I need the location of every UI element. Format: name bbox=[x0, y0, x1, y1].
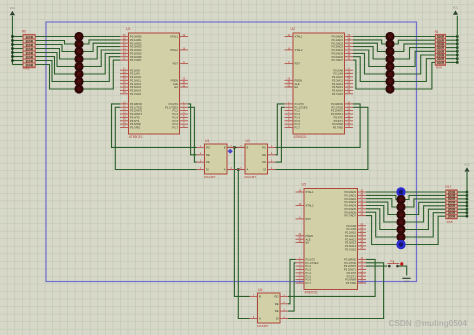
LED D16 bbox=[385, 84, 394, 93]
power VCC rail (mid right) bbox=[466, 172, 468, 216]
svg-text:P0.2/AD2: P0.2/AD2 bbox=[331, 41, 343, 45]
svg-text:VCC: VCC bbox=[10, 6, 16, 10]
svg-text:P0.7/AD7: P0.7/AD7 bbox=[344, 214, 356, 218]
wire U6 DE to U5 P1.1 bbox=[288, 263, 296, 311]
wire LED D10 to R1.2 bbox=[395, 40, 436, 44]
junction on mid-right VCC rail bbox=[466, 201, 468, 203]
wire U2 P0.6 to LED D15 bbox=[353, 57, 385, 82]
LED D5 bbox=[74, 62, 83, 71]
svg-text:P0.7/AD7: P0.7/AD7 bbox=[331, 58, 343, 62]
svg-text:XTAL1: XTAL1 bbox=[306, 190, 315, 194]
svg-text:A: A bbox=[259, 317, 261, 321]
svg-text:XTAL2: XTAL2 bbox=[306, 204, 315, 208]
MCU U5 bbox=[304, 189, 358, 290]
svg-text:U3: U3 bbox=[246, 139, 250, 143]
LED D18 bbox=[396, 195, 405, 204]
wire R17 row 5 to VCC rail bbox=[457, 205, 467, 207]
LED D9 bbox=[385, 32, 394, 41]
svg-text:AT89C51: AT89C51 bbox=[129, 135, 142, 139]
svg-text:P2.0/A8: P2.0/A8 bbox=[346, 224, 356, 228]
svg-text:P0.6/AD6: P0.6/AD6 bbox=[331, 55, 343, 59]
wire LED D23 to R17.7 bbox=[406, 213, 446, 237]
wire U2 P0.0 to LED D9 bbox=[353, 36, 385, 38]
wire LED D19 to R17.3 bbox=[406, 199, 446, 207]
wire LED D11 to R1.3 bbox=[395, 44, 436, 52]
wire R9.1 to LED D1 bbox=[35, 36, 74, 38]
LED D14 bbox=[385, 69, 394, 78]
svg-text:P2.2/A10: P2.2/A10 bbox=[332, 75, 344, 79]
wire U5 P0.3 to LED D20 bbox=[366, 202, 396, 214]
svg-text:P2.3/A11: P2.3/A11 bbox=[345, 234, 356, 238]
svg-text:P0.3/AD3: P0.3/AD3 bbox=[130, 45, 142, 49]
svg-text:R9: R9 bbox=[22, 29, 26, 33]
svg-text:MAX487: MAX487 bbox=[257, 324, 269, 328]
svg-text:P1.2: P1.2 bbox=[172, 109, 178, 113]
junction on left VCC rail bbox=[11, 47, 13, 49]
junction on top-right VCC rail bbox=[456, 58, 458, 60]
svg-text:RX8: RX8 bbox=[447, 220, 453, 224]
wire U2 P0.3 to LED D12 bbox=[353, 47, 385, 59]
svg-text:MAX487: MAX487 bbox=[245, 175, 257, 179]
svg-text:P2.7/A15: P2.7/A15 bbox=[130, 92, 142, 96]
svg-text:B: B bbox=[259, 295, 261, 299]
svg-text:P3.3/INT1: P3.3/INT1 bbox=[130, 112, 143, 116]
LED D23 bbox=[396, 232, 405, 241]
wire U2 P0.2 to LED D11 bbox=[353, 43, 385, 51]
wire R1 row 8 to VCC rail bbox=[446, 61, 458, 63]
svg-text:300R: 300R bbox=[448, 215, 456, 219]
svg-text:RX8: RX8 bbox=[436, 65, 442, 69]
svg-text:RX8: RX8 bbox=[24, 66, 30, 70]
svg-text:P3.6/WR: P3.6/WR bbox=[332, 122, 343, 126]
wire LED D12 to R1.4 bbox=[395, 48, 436, 59]
wire U1 P3.0/RXD to U4 RO bbox=[112, 104, 197, 147]
wire LED D16 to R1.8 bbox=[395, 62, 436, 89]
svg-text:P0.7/AD7: P0.7/AD7 bbox=[130, 58, 142, 62]
svg-text:P0.6/AD6: P0.6/AD6 bbox=[130, 55, 142, 59]
junction on left VCC rail bbox=[11, 55, 13, 57]
wire R9 row 3 to VCC rail bbox=[12, 44, 23, 46]
wire LED D2 to U1 P0.1 bbox=[84, 40, 121, 44]
junction on mid-right VCC rail bbox=[466, 194, 468, 196]
wire R9.6 to LED D6 bbox=[35, 57, 74, 75]
svg-text:P1.2: P1.2 bbox=[295, 109, 301, 113]
svg-text:P1.6: P1.6 bbox=[306, 278, 312, 282]
wire U5 P0.1 to LED D18 bbox=[366, 195, 396, 199]
MCU U2 bbox=[293, 33, 345, 134]
LED D20 bbox=[396, 210, 405, 219]
svg-text:P0.0/AD0: P0.0/AD0 bbox=[130, 35, 142, 39]
svg-text:P2.4/A12: P2.4/A12 bbox=[130, 82, 142, 86]
svg-text:B: B bbox=[224, 146, 226, 150]
svg-text:RST: RST bbox=[306, 217, 312, 221]
wire R9.4 to LED D4 bbox=[35, 49, 74, 60]
svg-text:P3.0/RXD: P3.0/RXD bbox=[130, 102, 142, 106]
wire LED D6 to U1 P0.5 bbox=[84, 53, 121, 74]
svg-text:P3.2/INT0: P3.2/INT0 bbox=[344, 264, 357, 268]
wire R9 row 5 to VCC rail bbox=[12, 52, 23, 54]
svg-text:U6: U6 bbox=[258, 288, 262, 292]
wire U5 P0.7 to LED D24 bbox=[366, 216, 396, 245]
svg-text:P3.5/T1: P3.5/T1 bbox=[334, 119, 344, 123]
svg-text:EA: EA bbox=[306, 241, 310, 245]
svg-text:P2.5/A13: P2.5/A13 bbox=[345, 241, 357, 245]
svg-text:RO: RO bbox=[206, 146, 210, 150]
svg-text:P3.0/RXD: P3.0/RXD bbox=[344, 258, 356, 262]
power VCC rail (top right) bbox=[456, 16, 458, 63]
svg-text:P0.6/AD6: P0.6/AD6 bbox=[344, 210, 356, 214]
wire U2 P0.1 to LED D10 bbox=[353, 40, 385, 44]
wire net A bus U4-U3 bbox=[227, 169, 245, 171]
wire U5 P3.2/INT0 to button K1 bbox=[366, 265, 387, 267]
svg-text:DE: DE bbox=[206, 160, 210, 164]
LED D21 bbox=[396, 217, 405, 226]
wire net B bus U4-U3 bbox=[227, 146, 245, 148]
svg-text:P1.6: P1.6 bbox=[172, 122, 178, 126]
junction on top-right VCC rail bbox=[456, 54, 458, 56]
wire U5 P0.2 to LED D19 bbox=[366, 199, 396, 207]
svg-text:P2.6/A14: P2.6/A14 bbox=[332, 89, 344, 93]
svg-text:P3.4/T0: P3.4/T0 bbox=[347, 271, 357, 275]
svg-text:P2.2/A10: P2.2/A10 bbox=[130, 75, 142, 79]
svg-text:R1: R1 bbox=[435, 30, 439, 34]
svg-text:DI: DI bbox=[206, 168, 209, 172]
svg-text:P0.3/AD3: P0.3/AD3 bbox=[331, 45, 343, 49]
svg-text:P3.7/RD: P3.7/RD bbox=[130, 126, 140, 130]
wire R9.5 to LED D5 bbox=[35, 53, 74, 67]
ground bbox=[402, 277, 410, 279]
svg-text:P3.7/RD: P3.7/RD bbox=[333, 126, 343, 130]
svg-text:P3.6/WR: P3.6/WR bbox=[345, 278, 356, 282]
LED D11 bbox=[385, 47, 394, 56]
junction on left VCC rail bbox=[11, 59, 13, 61]
svg-text:P1.3: P1.3 bbox=[295, 112, 301, 116]
wire R17 row 8 to VCC rail bbox=[457, 215, 467, 217]
wire LED D4 to U1 P0.3 bbox=[84, 47, 121, 59]
wire R17 row 7 to VCC rail bbox=[457, 212, 467, 214]
svg-text:RST: RST bbox=[295, 62, 301, 66]
power VCC rail (left) bbox=[11, 16, 13, 65]
wire R9.2 to LED D2 bbox=[35, 41, 74, 45]
svg-text:P1.6: P1.6 bbox=[295, 122, 301, 126]
svg-text:B: B bbox=[247, 146, 249, 150]
wire button K1 to ground bbox=[399, 266, 407, 275]
LED D2 bbox=[74, 39, 83, 48]
wire LED D22 to R17.6 bbox=[406, 209, 446, 229]
wire LED D18 to R17.2 bbox=[406, 195, 446, 199]
svg-text:P1.0/T2: P1.0/T2 bbox=[306, 258, 316, 262]
wire LED D8 to U1 P0.7 bbox=[84, 60, 121, 89]
svg-text:XTAL1: XTAL1 bbox=[295, 35, 304, 39]
wire U1 P3.1/TXD to U4 DI bbox=[115, 107, 196, 169]
svg-text:PSEN: PSEN bbox=[171, 78, 178, 82]
wire R1 row 6 to VCC rail bbox=[446, 54, 458, 56]
junction on mid-right VCC rail bbox=[466, 215, 468, 217]
svg-text:U5: U5 bbox=[302, 183, 307, 187]
wire R9.7 to LED D7 bbox=[35, 61, 74, 82]
svg-text:A: A bbox=[224, 168, 226, 172]
junction on top-right VCC rail bbox=[456, 61, 458, 63]
junction node A bbox=[237, 168, 239, 170]
svg-text:RE: RE bbox=[206, 153, 210, 157]
junction on mid-right VCC rail bbox=[466, 212, 468, 214]
svg-text:P3.6/WR: P3.6/WR bbox=[130, 122, 141, 126]
wire LED D7 to U1 P0.6 bbox=[84, 57, 121, 82]
wire U6 DI to U5 P3.1/TXD bbox=[288, 263, 384, 319]
wire net A drop to U6 bbox=[238, 170, 249, 319]
svg-text:P1.7: P1.7 bbox=[295, 126, 301, 130]
wire R9 row 8 to VCC rail bbox=[12, 64, 23, 66]
junction on top-right VCC rail bbox=[456, 50, 458, 52]
LED D6 bbox=[74, 69, 83, 78]
svg-text:P1.5: P1.5 bbox=[295, 119, 301, 123]
svg-text:EA: EA bbox=[295, 85, 299, 89]
svg-text:P3.3/INT1: P3.3/INT1 bbox=[344, 268, 357, 272]
wire U2 P0.7 to LED D16 bbox=[353, 60, 385, 89]
svg-text:K1: K1 bbox=[391, 259, 395, 263]
svg-text:gnd: gnd bbox=[404, 279, 409, 283]
svg-text:DE: DE bbox=[262, 160, 266, 164]
wire R9 row 2 to VCC rail bbox=[12, 40, 23, 42]
svg-text:RO: RO bbox=[262, 146, 266, 150]
wire U2 P1.0 to U3 RE bbox=[276, 104, 285, 155]
svg-text:P1.3: P1.3 bbox=[306, 268, 312, 272]
svg-text:XTAL1: XTAL1 bbox=[170, 35, 179, 39]
wire LED D24 to R17.8 bbox=[406, 216, 446, 244]
button indicator bbox=[400, 262, 403, 265]
resistor pack R9 bbox=[23, 34, 35, 68]
wire R1 row 4 to VCC rail bbox=[446, 47, 458, 49]
svg-text:A: A bbox=[247, 168, 249, 172]
wire R17 row 3 to VCC rail bbox=[457, 198, 467, 200]
wire LED D20 to R17.4 bbox=[406, 202, 446, 214]
junction on mid-right VCC rail bbox=[466, 205, 468, 207]
svg-text:P3.2/INT0: P3.2/INT0 bbox=[130, 109, 143, 113]
transceiver U6 bbox=[258, 293, 281, 323]
wire R9.8 to LED D8 bbox=[35, 65, 74, 90]
svg-text:P2.3/A11: P2.3/A11 bbox=[332, 78, 343, 82]
wire LED D17 to R17.1 bbox=[406, 191, 446, 193]
wire U5 P0.0 to LED D17 bbox=[366, 191, 396, 193]
wire LED D3 to U1 P0.2 bbox=[84, 43, 121, 51]
junction node B bbox=[233, 146, 235, 148]
svg-text:U1: U1 bbox=[126, 27, 131, 31]
wire U6 RE to U5 P1.0 bbox=[288, 259, 296, 303]
wire U5 P0.4 to LED D21 bbox=[366, 206, 396, 223]
LED D19 bbox=[396, 202, 405, 211]
svg-text:PSEN: PSEN bbox=[295, 78, 302, 82]
bus marker diamond bbox=[228, 149, 233, 154]
svg-text:XTAL2: XTAL2 bbox=[295, 48, 304, 52]
svg-text:P1.0/T2: P1.0/T2 bbox=[295, 102, 305, 106]
svg-text:DE: DE bbox=[275, 309, 279, 313]
svg-text:P1.0/T2: P1.0/T2 bbox=[169, 102, 179, 106]
wire U1 P1.1 to U4 DE bbox=[188, 107, 197, 162]
svg-text:P0.5/AD5: P0.5/AD5 bbox=[344, 207, 356, 211]
svg-text:CSDN @muling0504: CSDN @muling0504 bbox=[388, 319, 467, 328]
svg-text:RE: RE bbox=[275, 302, 279, 306]
wire U2 P3.1/TXD to U3 DI bbox=[276, 107, 368, 169]
LED D10 bbox=[385, 39, 394, 48]
svg-text:P0.4/AD4: P0.4/AD4 bbox=[331, 48, 343, 52]
svg-text:VCC: VCC bbox=[453, 6, 459, 10]
wire R1 row 5 to VCC rail bbox=[446, 50, 458, 52]
wire R9 row 1 to VCC rail bbox=[12, 36, 23, 38]
wire R17 row 4 to VCC rail bbox=[457, 201, 467, 203]
wire LED D1 to U1 P0.0 bbox=[84, 36, 121, 38]
svg-text:RO: RO bbox=[274, 295, 278, 299]
transceiver U3 bbox=[245, 144, 268, 174]
svg-text:VCC: VCC bbox=[464, 162, 470, 166]
svg-text:P0.2/AD2: P0.2/AD2 bbox=[344, 197, 356, 201]
svg-text:P2.2/A10: P2.2/A10 bbox=[345, 231, 357, 235]
svg-text:RST: RST bbox=[173, 62, 179, 66]
svg-text:P2.7/A15: P2.7/A15 bbox=[332, 92, 344, 96]
svg-text:EA: EA bbox=[174, 85, 178, 89]
wire R1 row 1 to VCC rail bbox=[446, 36, 458, 38]
svg-text:DI: DI bbox=[263, 168, 266, 172]
svg-text:P1.7: P1.7 bbox=[306, 281, 312, 285]
svg-text:P3.7/RD: P3.7/RD bbox=[346, 281, 356, 285]
wire R9.3 to LED D3 bbox=[35, 45, 74, 52]
wire LED D21 to R17.5 bbox=[406, 206, 446, 222]
junction on top-right VCC rail bbox=[456, 35, 458, 37]
svg-text:DI: DI bbox=[276, 317, 279, 321]
junction on mid-right VCC rail bbox=[466, 208, 468, 210]
wire U2 P3.0/RXD to U3 RO bbox=[276, 104, 361, 147]
wire U6 RO to U5 P3.0/RXD bbox=[288, 259, 375, 296]
junction on top-right VCC rail bbox=[456, 39, 458, 41]
svg-text:P2.6/A14: P2.6/A14 bbox=[130, 89, 142, 93]
junction on mid-right VCC rail bbox=[466, 191, 468, 193]
resistor pack R1 bbox=[435, 34, 445, 65]
wire U2 P1.1 to U3 DE bbox=[276, 107, 285, 162]
svg-text:R17: R17 bbox=[445, 185, 451, 189]
svg-text:P2.0/A8: P2.0/A8 bbox=[333, 68, 343, 72]
svg-text:RE: RE bbox=[262, 153, 266, 157]
junction on mid-right VCC rail bbox=[466, 198, 468, 200]
wire R9 row 4 to VCC rail bbox=[12, 48, 23, 50]
junction on left VCC rail bbox=[11, 35, 13, 37]
svg-text:P2.7/A15: P2.7/A15 bbox=[345, 247, 357, 251]
wire R9 row 6 to VCC rail bbox=[12, 56, 23, 58]
wire R1 row 3 to VCC rail bbox=[446, 43, 458, 45]
LED D7 bbox=[74, 77, 83, 86]
svg-text:P1.5: P1.5 bbox=[172, 119, 178, 123]
resistor pack R17 bbox=[446, 190, 457, 219]
svg-text:P0.4/AD4: P0.4/AD4 bbox=[130, 48, 142, 52]
LED D4 bbox=[74, 54, 83, 63]
wire R1 row 2 to VCC rail bbox=[446, 39, 458, 41]
wire U5 P0.6 to LED D23 bbox=[366, 212, 396, 237]
svg-text:P1.3: P1.3 bbox=[172, 112, 178, 116]
transceiver U4 bbox=[205, 144, 228, 174]
wire U2 P0.4 to LED D13 bbox=[353, 50, 385, 67]
wire LED D13 to R1.5 bbox=[395, 51, 436, 66]
svg-text:P3.3/INT1: P3.3/INT1 bbox=[331, 112, 344, 116]
wire R17 row 2 to VCC rail bbox=[457, 194, 467, 196]
svg-text:P0.0/AD0: P0.0/AD0 bbox=[331, 35, 343, 39]
LED D24 bbox=[396, 240, 405, 249]
wire U2 P0.5 to LED D14 bbox=[353, 53, 385, 74]
svg-text:PSEN: PSEN bbox=[306, 234, 313, 238]
wire R1 row 7 to VCC rail bbox=[446, 58, 458, 60]
junction on left VCC rail bbox=[11, 43, 13, 45]
junction on left VCC rail bbox=[11, 51, 13, 53]
wire R17 row 6 to VCC rail bbox=[457, 208, 467, 210]
svg-text:P2.3/A11: P2.3/A11 bbox=[130, 78, 141, 82]
svg-text:AT89C51: AT89C51 bbox=[305, 291, 318, 295]
LED D12 bbox=[385, 54, 394, 63]
svg-text:P2.6/A14: P2.6/A14 bbox=[345, 244, 357, 248]
svg-text:P0.3/AD3: P0.3/AD3 bbox=[344, 200, 356, 204]
junction on top-right VCC rail bbox=[456, 46, 458, 48]
wire LED D14 to R1.6 bbox=[395, 55, 436, 74]
LED D13 bbox=[385, 62, 394, 71]
wire net B drop to U6 bbox=[234, 147, 249, 296]
junction on top-right VCC rail bbox=[456, 43, 458, 45]
junction on left VCC rail bbox=[11, 39, 13, 41]
LED D1 bbox=[74, 32, 83, 41]
LED D3 bbox=[74, 47, 83, 56]
wire LED D9 to R1.1 bbox=[395, 36, 436, 38]
svg-text:P1.2: P1.2 bbox=[306, 264, 312, 268]
svg-text:P2.0/A8: P2.0/A8 bbox=[130, 68, 140, 72]
LED D17 bbox=[396, 187, 405, 196]
wire U1 P1.0 to U4 RE bbox=[188, 104, 197, 155]
svg-text:U4: U4 bbox=[205, 139, 209, 143]
sheet border bbox=[46, 22, 417, 282]
LED D15 bbox=[385, 77, 394, 86]
svg-text:XTAL2: XTAL2 bbox=[170, 48, 179, 52]
svg-text:U2: U2 bbox=[291, 27, 296, 31]
svg-text:P0.0/AD0: P0.0/AD0 bbox=[344, 190, 356, 194]
svg-text:P2.4/A12: P2.4/A12 bbox=[332, 82, 344, 86]
svg-text:P1.4: P1.4 bbox=[306, 271, 312, 275]
push button K1 bbox=[388, 265, 391, 268]
wire LED D15 to R1.7 bbox=[395, 59, 436, 82]
svg-text:P3.2/INT0: P3.2/INT0 bbox=[331, 109, 344, 113]
LED D8 bbox=[74, 84, 83, 93]
svg-text:P3.5/T1: P3.5/T1 bbox=[130, 119, 140, 123]
LED D22 bbox=[396, 225, 405, 234]
svg-text:MAX487: MAX487 bbox=[204, 175, 216, 179]
wire U5 P0.5 to LED D22 bbox=[366, 209, 396, 230]
wire R9 row 7 to VCC rail bbox=[12, 60, 23, 62]
svg-text:AT89C51: AT89C51 bbox=[294, 135, 307, 139]
svg-text:P3.0/RXD: P3.0/RXD bbox=[331, 102, 343, 106]
wire LED D5 to U1 P0.4 bbox=[84, 50, 121, 67]
wire R17 row 1 to VCC rail bbox=[457, 191, 467, 193]
svg-text:P0.2/AD2: P0.2/AD2 bbox=[130, 41, 142, 45]
MCU U1 bbox=[129, 33, 180, 134]
svg-text:P1.7: P1.7 bbox=[172, 126, 178, 130]
